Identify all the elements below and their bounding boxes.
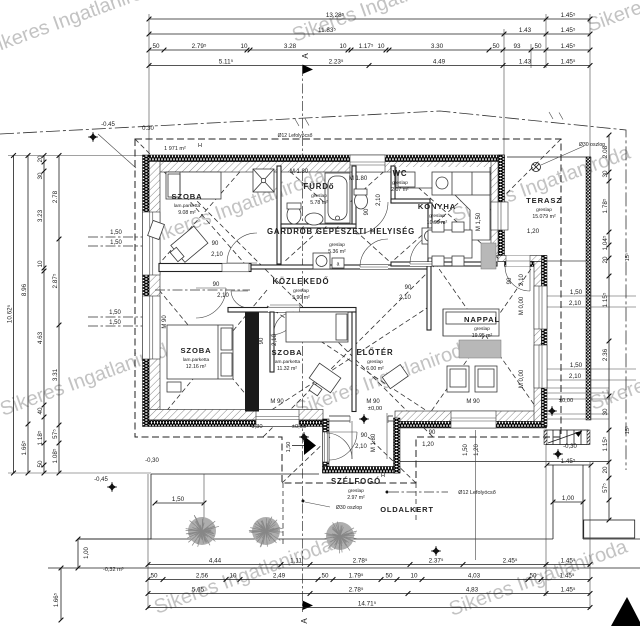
svg-text:1.66⁵: 1.66⁵ [21, 440, 28, 455]
bottom row 1 [148, 564, 590, 566]
toilet wc room [355, 193, 368, 209]
shower corner furdo [253, 169, 274, 192]
svg-text:15.079 m²: 15.079 m² [532, 214, 556, 220]
svg-text:A: A [301, 53, 310, 59]
svg-text:H: H [220, 158, 224, 164]
east upper wall konyha [491, 162, 502, 256]
bathtub [325, 173, 350, 223]
svg-text:2,10: 2,10 [399, 295, 411, 301]
room diagonal X szoba1 [159, 166, 245, 264]
svg-text:1,20: 1,20 [422, 442, 434, 448]
svg-text:5.78 m²: 5.78 m² [310, 200, 328, 206]
svg-text:2,10: 2,10 [355, 444, 367, 450]
washbasin furdo [305, 213, 323, 225]
svg-text:TERASZ: TERASZ [526, 196, 562, 205]
svg-text:greslap: greslap [293, 288, 309, 294]
svg-text:10: 10 [240, 43, 248, 50]
svg-text:2.79⁵: 2.79⁵ [192, 43, 207, 50]
svg-text:50: 50 [37, 460, 44, 468]
svg-text:±0,00: ±0,00 [559, 398, 573, 404]
terrace steps [546, 430, 588, 445]
svg-text:M 0,00: M 0,00 [519, 369, 525, 388]
cabinet gepeszeti [332, 258, 344, 268]
drain leader [541, 146, 584, 165]
svg-text:30: 30 [602, 170, 609, 178]
partition corridor south [228, 308, 356, 313]
svg-text:greslap: greslap [474, 326, 490, 332]
svg-text:greslap: greslap [536, 207, 552, 213]
svg-text:M 90: M 90 [162, 315, 168, 329]
svg-text:M 1.80: M 1.80 [349, 176, 368, 182]
north exterior wall [149, 162, 505, 173]
svg-text:M 90: M 90 [270, 399, 284, 405]
konyha east window [491, 202, 508, 230]
bed szoba1 [166, 172, 221, 199]
svg-text:50: 50 [150, 573, 158, 580]
kitchen counter [396, 167, 490, 240]
east misc callout lines [546, 260, 590, 262]
roof drain symbol [532, 163, 541, 172]
svg-text:SZOBA: SZOBA [271, 348, 302, 357]
west window callout 1.50/1.50 lower [88, 316, 150, 318]
svg-text:90: 90 [213, 282, 220, 288]
svg-text:1.43: 1.43 [519, 27, 532, 34]
lefolyocso leader [389, 491, 448, 493]
top dimension extension lines [148, 14, 150, 155]
garden path to street [552, 465, 554, 539]
svg-text:11.83⁵: 11.83⁵ [318, 27, 336, 34]
svg-text:5.36 m²: 5.36 m² [328, 249, 346, 255]
svg-text:a: a [337, 262, 340, 268]
svg-text:1,20: 1,20 [474, 444, 480, 456]
trees [186, 515, 219, 547]
terrace east dotted edge [586, 157, 591, 420]
bottom row 4 total [148, 607, 590, 609]
svg-text:1,50: 1,50 [172, 496, 185, 503]
partition furdo south [281, 224, 356, 228]
svg-text:M 90: M 90 [466, 399, 480, 405]
svg-text:50: 50 [321, 573, 329, 580]
svg-text:20: 20 [37, 155, 44, 163]
svg-text:4,44: 4,44 [209, 558, 222, 565]
garden dim 1.50 [155, 502, 204, 504]
svg-text:30: 30 [37, 172, 44, 180]
garden terrace edge right [400, 461, 609, 463]
partition szoba1-furdo [277, 166, 281, 264]
svg-text:M 1.80: M 1.80 [290, 169, 309, 175]
svg-text:13.28⁵: 13.28⁵ [326, 12, 345, 19]
roof diagonal NW-SE [135, 139, 433, 437]
thick wall szoba2-szoba3 [245, 312, 259, 412]
svg-text:1.45⁵: 1.45⁵ [561, 27, 576, 34]
dimension row detail [149, 49, 590, 51]
terrace outline [507, 156, 591, 158]
svg-text:Ø30 oszlop: Ø30 oszlop [336, 505, 362, 511]
svg-text:8.96: 8.96 [21, 283, 28, 296]
svg-text:-0,45: -0,45 [94, 477, 108, 483]
partition wc south [391, 199, 430, 203]
door terrace [505, 266, 530, 291]
svg-text:greslap: greslap [348, 488, 364, 494]
svg-text:4.49: 4.49 [433, 59, 446, 66]
level marks [299, 432, 309, 442]
svg-text:9.08 m²: 9.08 m² [178, 210, 196, 216]
partition szoba3-eloter [352, 312, 356, 412]
partition furdo east [352, 166, 356, 224]
toilet furdo [287, 206, 301, 224]
partition konyha south [391, 262, 497, 266]
svg-text:57⁵: 57⁵ [52, 429, 59, 439]
svg-text:3.31: 3.31 [52, 368, 59, 381]
svg-text:greslap: greslap [392, 180, 408, 186]
szoba3 desk rotated [303, 363, 340, 401]
svg-text:4.63: 4.63 [37, 331, 44, 344]
door furdo [356, 202, 388, 234]
svg-text:SZOBA: SZOBA [180, 346, 211, 355]
armchairs nappal [447, 366, 469, 392]
svg-text:Ø12 Lefolyócső: Ø12 Lefolyócső [458, 490, 495, 496]
svg-text:lam.parketta: lam.parketta [174, 203, 201, 209]
svg-text:1,50: 1,50 [109, 320, 121, 326]
szoba2 door jamb elbow [235, 307, 251, 312]
szelfogo west door opening [323, 432, 330, 462]
svg-text:greslap: greslap [329, 242, 345, 248]
roof diagonal NE-SW [263, 139, 561, 437]
svg-text:90: 90 [259, 337, 265, 344]
svg-text:90: 90 [212, 241, 219, 247]
eloter cabinet rotated [382, 365, 408, 389]
svg-text:0.30: 0.30 [142, 126, 154, 132]
room diagonal X nappal [430, 256, 540, 413]
szoba3 south window [256, 410, 299, 427]
east window callout lower 1.50/2.10 [546, 368, 636, 370]
svg-text:1.45⁵: 1.45⁵ [560, 573, 575, 580]
svg-text:M 1,50: M 1,50 [476, 212, 482, 231]
svg-text:1,20: 1,20 [527, 228, 540, 235]
svg-text:1.45⁵: 1.45⁵ [561, 558, 576, 565]
svg-text:WC: WC [393, 169, 408, 178]
partition szoba1 south [159, 264, 251, 272]
svg-text:2.78⁵: 2.78⁵ [349, 587, 364, 594]
svg-text:90: 90 [361, 433, 368, 439]
section line A-A [302, 66, 304, 612]
garden terrace edge left [151, 473, 319, 475]
svg-text:-0,30: -0,30 [563, 444, 577, 450]
svg-text:1.45⁵: 1.45⁵ [561, 587, 576, 594]
svg-text:1,50: 1,50 [463, 444, 469, 456]
door szelfogo-eloter [326, 433, 352, 459]
bed szoba2 [167, 325, 233, 379]
svg-text:20: 20 [602, 466, 609, 474]
svg-text:NAPPAL: NAPPAL [464, 315, 500, 324]
site boundary line [0, 111, 626, 470]
boundary leader to house corner [98, 134, 136, 168]
bottom row 2 [148, 579, 590, 581]
szoba3 door leaf [270, 312, 274, 372]
svg-text:Ø30 oszlop: Ø30 oszlop [579, 142, 605, 148]
svg-text:1.45⁵: 1.45⁵ [561, 12, 576, 19]
svg-text:lam.parketta: lam.parketta [183, 357, 210, 363]
szelfogo east wall [394, 418, 401, 473]
room diagonal X szoba3/eloter [267, 306, 430, 413]
svg-text:90: 90 [364, 208, 370, 215]
svg-text:-0,30: -0,30 [145, 458, 159, 464]
svg-text:1.08⁵: 1.08⁵ [52, 448, 59, 463]
svg-text:2.78: 2.78 [52, 190, 59, 203]
bottom extension lines [147, 474, 149, 609]
svg-text:1.45⁵: 1.45⁵ [561, 43, 576, 50]
szoba2 door axis line [155, 289, 250, 291]
szoba2 west window [143, 296, 161, 359]
svg-text:KÖZLEKEDŐ: KÖZLEKEDŐ [272, 277, 329, 286]
szoba1 desk rotated [167, 226, 208, 265]
svg-text:A: A [300, 618, 309, 624]
svg-text:2,56: 2,56 [196, 573, 209, 580]
left dim 10.62 [13, 156, 15, 474]
partition gardrob-konyha [428, 203, 432, 262]
svg-text:1,11: 1,11 [290, 558, 302, 565]
north arrow bottom right [611, 597, 640, 626]
svg-text:1 971 m²: 1 971 m² [164, 146, 186, 152]
svg-text:OLDALKERT: OLDALKERT [380, 505, 433, 514]
svg-text:50: 50 [534, 43, 542, 50]
svg-text:10: 10 [229, 573, 237, 580]
svg-text:FÜRDő: FÜRDő [304, 182, 335, 191]
svg-text:±0,00: ±0,00 [368, 406, 382, 412]
svg-text:2.87⁵: 2.87⁵ [52, 273, 59, 288]
svg-text:1.79⁵: 1.79⁵ [349, 573, 364, 580]
dashed verticals below szelfogo [282, 483, 284, 545]
svg-text:1,50: 1,50 [110, 230, 122, 236]
bottom row 3 [148, 593, 590, 595]
svg-text:3.28: 3.28 [284, 43, 297, 50]
washer2 [422, 228, 438, 244]
svg-text:greslap: greslap [311, 193, 327, 199]
svg-text:1.04⁵: 1.04⁵ [602, 235, 609, 250]
svg-text:15⁵: 15⁵ [624, 253, 631, 261]
svg-text:M 0,00: M 0,00 [519, 296, 525, 315]
south exterior wall west part [149, 410, 323, 421]
svg-text:lam.parketta: lam.parketta [274, 359, 301, 365]
steps width 1.45 [547, 464, 591, 466]
room diagonal X konyha [394, 166, 500, 260]
szoba2 door arc [231, 291, 248, 308]
svg-text:3.23: 3.23 [37, 209, 44, 222]
svg-text:SZÉLFOGÓ: SZÉLFOGÓ [331, 477, 381, 486]
svg-text:1.15⁵: 1.15⁵ [602, 292, 609, 307]
east window callout upper 1.50/2.10 [546, 295, 636, 297]
svg-text:1,00: 1,00 [84, 547, 90, 559]
room diagonal X szoba2 [159, 290, 267, 420]
svg-text:10: 10 [377, 43, 385, 50]
south exterior wall east part [395, 411, 547, 422]
svg-text:2.36: 2.36 [602, 348, 609, 361]
nappal east window 2 [534, 345, 547, 388]
svg-text:30: 30 [602, 408, 609, 416]
entrance arrow [304, 436, 316, 455]
szelfogo roof diagonals [282, 437, 330, 483]
svg-text:11.32 m²: 11.32 m² [277, 366, 297, 372]
dimension row 11.83 [149, 33, 590, 35]
svg-text:M 90: M 90 [366, 399, 380, 405]
svg-text:12.16 m²: 12.16 m² [186, 364, 207, 370]
svg-text:-0,32 m³: -0,32 m³ [103, 567, 124, 573]
svg-text:50: 50 [529, 573, 537, 580]
svg-text:1,50: 1,50 [286, 442, 292, 453]
partition wc west [391, 166, 395, 203]
svg-text:4,03: 4,03 [468, 573, 481, 580]
svg-text:-0.45: -0.45 [101, 122, 115, 128]
svg-text:50: 50 [385, 573, 393, 580]
svg-text:2,10: 2,10 [211, 252, 223, 258]
svg-text:-0,30: -0,30 [249, 424, 262, 430]
door corridor-gardrob [360, 239, 388, 267]
szelfogo west wall [323, 419, 330, 473]
svg-text:ELŐTÉR: ELŐTÉR [356, 348, 393, 357]
svg-text:2.07 m²: 2.07 m² [391, 187, 409, 193]
svg-text:93: 93 [513, 43, 521, 50]
svg-text:H: H [381, 473, 385, 479]
furdo north window [350, 155, 385, 172]
dimension row 13.28 [149, 18, 590, 20]
svg-text:±0,00: ±0,00 [292, 424, 306, 430]
svg-text:40: 40 [37, 407, 44, 415]
szelfogo south wall [323, 467, 401, 474]
section marker A top [303, 65, 314, 75]
svg-text:KONYHA: KONYHA [418, 202, 456, 211]
svg-text:10.62⁵: 10.62⁵ [7, 304, 14, 323]
svg-text:1.45⁵: 1.45⁵ [561, 458, 576, 465]
svg-text:2.37⁵: 2.37⁵ [429, 558, 444, 565]
svg-text:1,00: 1,00 [562, 495, 575, 502]
svg-text:1.45⁵: 1.45⁵ [561, 59, 576, 66]
svg-text:H: H [198, 143, 202, 149]
svg-text:19.95 m²: 19.95 m² [472, 333, 493, 339]
svg-text:1.43: 1.43 [519, 59, 532, 66]
svg-text:2.23⁵: 2.23⁵ [329, 59, 344, 66]
nappal east window 1 [534, 286, 547, 329]
sofa nappal [443, 309, 499, 336]
svg-text:2,10: 2,10 [519, 274, 525, 286]
svg-text:6.00 m²: 6.00 m² [366, 366, 384, 372]
door szoba3 [270, 305, 300, 335]
east lower wall nappal [534, 262, 542, 422]
left dim 2.78 [58, 156, 60, 474]
svg-text:Ø12 Lefolyócső: Ø12 Lefolyócső [278, 133, 313, 139]
svg-text:2,10: 2,10 [569, 373, 582, 380]
svg-text:greslap: greslap [367, 359, 383, 365]
coffee table nappal [459, 340, 501, 358]
retaining wall lines [78, 538, 553, 540]
svg-text:1,50: 1,50 [110, 240, 122, 246]
svg-text:15⁵: 15⁵ [624, 426, 631, 434]
terrace door wall jog [498, 256, 547, 262]
door entrance [329, 432, 357, 460]
svg-text:5.90 m²: 5.90 m² [292, 295, 310, 301]
bottom right pillar [584, 520, 635, 538]
svg-text:1.17⁵: 1.17⁵ [359, 43, 374, 50]
svg-text:greslap: greslap [429, 213, 445, 219]
fridge gray [481, 243, 496, 269]
svg-text:1,50: 1,50 [570, 289, 583, 296]
svg-text:57⁵: 57⁵ [602, 483, 609, 493]
svg-text:10: 10 [37, 260, 44, 268]
svg-text:2,10: 2,10 [569, 300, 582, 307]
door szoba1 [227, 233, 257, 263]
svg-text:10: 10 [339, 43, 347, 50]
svg-text:1.15⁵: 1.15⁵ [602, 436, 609, 451]
nappal south window [451, 411, 496, 428]
svg-text:2.97 m²: 2.97 m² [347, 495, 365, 501]
szelfogo vertical callout [475, 430, 477, 560]
kitchen table [428, 230, 472, 258]
svg-text:14.71⁵: 14.71⁵ [358, 601, 377, 608]
eaves outline dashed [135, 139, 561, 483]
svg-text:90: 90 [405, 285, 412, 291]
svg-text:2,10: 2,10 [376, 194, 382, 206]
svg-text:1,50: 1,50 [570, 362, 583, 369]
svg-text:M 1.80: M 1.80 [371, 433, 377, 452]
svg-text:10: 10 [410, 573, 418, 580]
oszlop leader [305, 502, 330, 507]
svg-text:2.45⁵: 2.45⁵ [503, 558, 518, 565]
szoba1 west window [143, 212, 161, 275]
bottom left small dim [60, 568, 62, 620]
svg-text:5,65: 5,65 [192, 587, 205, 594]
svg-text:H: H [142, 172, 146, 178]
west window callout 1.50/1.50 upper [88, 236, 150, 238]
dimension row 5.11 [149, 65, 590, 67]
svg-text:20: 20 [602, 256, 609, 264]
partition gardrob south / corridor north [251, 265, 430, 269]
svg-text:4,83: 4,83 [466, 587, 479, 594]
section marker A bottom [303, 601, 314, 611]
svg-text:90: 90 [507, 277, 513, 284]
boundary tick marks [295, 119, 299, 126]
bed szoba3 [286, 312, 348, 342]
svg-text:50: 50 [492, 43, 500, 50]
svg-text:1.78⁵: 1.78⁵ [602, 198, 609, 213]
svg-text:5.11⁵: 5.11⁵ [219, 59, 234, 66]
path width 1.00 [553, 501, 583, 503]
svg-text:SZOBA: SZOBA [171, 192, 202, 201]
right dim column [608, 135, 610, 520]
partition eloter-nappal [427, 266, 431, 330]
washer gepeszeti [313, 253, 330, 269]
svg-text:GARDRÓB GÉPÉSZETI HELYISÉG: GARDRÓB GÉPÉSZETI HELYISÉG [267, 227, 415, 236]
svg-text:1.18⁵: 1.18⁵ [37, 430, 44, 445]
szelfogo north wall thin with door [329, 415, 393, 417]
svg-text:10.99 m²: 10.99 m² [427, 220, 448, 226]
left dim 4.63 [43, 156, 45, 474]
svg-text:3.30: 3.30 [431, 43, 444, 50]
svg-text:1.66⁵: 1.66⁵ [53, 592, 60, 607]
left dim 8.96 [27, 156, 29, 474]
svg-text:2.78⁵: 2.78⁵ [353, 558, 368, 565]
svg-text:90: 90 [429, 430, 436, 436]
west exterior wall [149, 162, 160, 421]
svg-text:1,50: 1,50 [109, 310, 121, 316]
svg-text:2,10: 2,10 [217, 293, 229, 299]
room diagonal X furdo [284, 166, 390, 262]
door konyha [410, 234, 440, 264]
svg-text:50: 50 [152, 43, 160, 50]
svg-text:2,10: 2,10 [272, 334, 278, 346]
svg-text:2,49: 2,49 [273, 573, 286, 580]
door szoba2 [196, 288, 226, 318]
left dimension extension lines [8, 155, 149, 157]
